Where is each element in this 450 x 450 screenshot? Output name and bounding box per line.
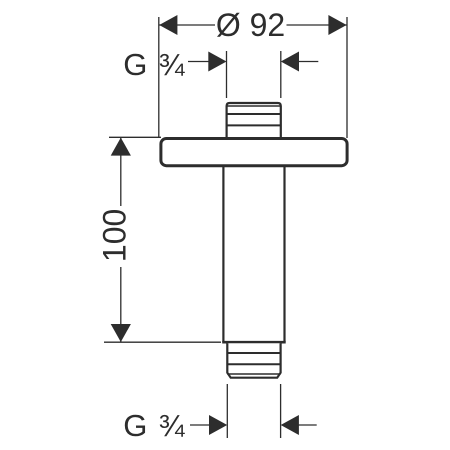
top thread chamfer line — [227, 105, 281, 107]
dim G3/4 bottom right arrow — [281, 415, 299, 435]
dim G3/4 bottom tail line right — [298, 424, 317, 426]
bottom thread bevel line — [227, 373, 280, 375]
pipe body left wall — [222, 166, 224, 343]
pipe bottom shoulder — [222, 341, 286, 344]
bottom thread right extension line — [280, 384, 282, 438]
bottom thread ridge line 1 — [227, 352, 280, 354]
top thread left extension line — [226, 51, 228, 98]
dim G3/4 top tail line left — [188, 61, 210, 63]
dim 100 down arrow — [111, 324, 131, 342]
top thread ridge line 2 — [227, 124, 281, 126]
dim 100 up arrow — [111, 138, 131, 156]
top thread right extension line — [280, 51, 282, 98]
dim G3/4 top left arrow — [208, 52, 226, 72]
svg-text:Ø 92: Ø 92 — [216, 7, 285, 43]
dim 100 bottom extension line — [104, 341, 221, 343]
dim G3/4 top right arrow — [281, 52, 299, 72]
pipe body right wall — [283, 166, 285, 343]
top thread ridge line 1 — [227, 113, 281, 115]
bottom thread ridge line 2 — [227, 363, 280, 365]
dim 100 top extension line — [109, 136, 161, 138]
svg-text:G: G — [123, 47, 147, 82]
dim Ø92 left extension line — [158, 17, 160, 138]
svg-text:¾: ¾ — [159, 408, 186, 443]
dim G3/4 top tail line right — [298, 61, 318, 63]
dim Ø92 left arrow — [159, 15, 177, 35]
dim Ø92 right extension line — [346, 17, 348, 138]
dim Ø92 right arrow — [328, 15, 346, 35]
ceiling flange (escutcheon plate, side view) — [161, 139, 347, 166]
dim G3/4 bottom left arrow — [209, 415, 227, 435]
dim 100 line lower segment — [120, 267, 122, 342]
dim Ø92 line left segment — [159, 24, 215, 26]
dim 100 line upper segment — [120, 137, 122, 206]
svg-text:G: G — [123, 408, 147, 443]
dim Ø92 line right segment — [287, 24, 348, 26]
svg-text:100: 100 — [97, 209, 133, 262]
bottom thread G3/4 outline — [227, 343, 280, 377]
svg-text:¾: ¾ — [159, 47, 186, 82]
bottom thread left extension line — [226, 384, 228, 438]
dim G3/4 bottom tail line left — [190, 424, 210, 426]
top thread G3/4 outline — [227, 103, 281, 139]
